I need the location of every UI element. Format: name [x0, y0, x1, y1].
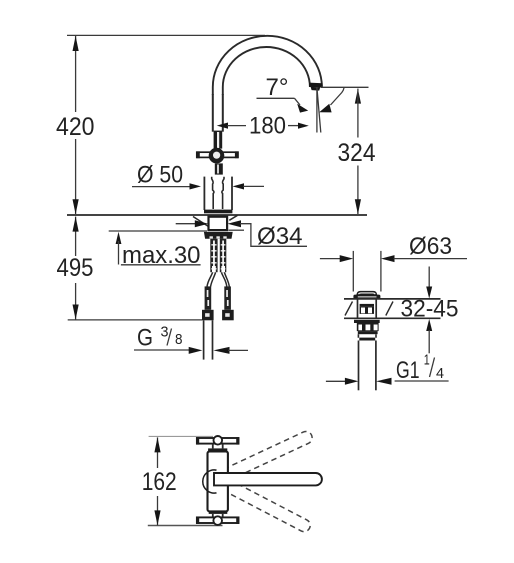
top view handle top stem — [208, 444, 227, 452]
dimension 495 bottom extension line — [68, 319, 203, 321]
hose fitting left — [202, 286, 214, 320]
drain deck band — [344, 299, 441, 318]
drain lock nut — [354, 320, 380, 334]
hose right — [221, 272, 229, 286]
stud open bottom left — [212, 266, 216, 272]
svg-text:3: 3 — [161, 325, 169, 341]
body base band — [204, 210, 232, 214]
svg-text:32-45: 32-45 — [401, 296, 459, 323]
spout inner curve — [223, 47, 310, 95]
7-degree arrowheads — [297, 104, 331, 113]
svg-text:1: 1 — [424, 353, 430, 369]
mounting nut — [204, 232, 233, 239]
svg-text:495: 495 — [57, 254, 94, 282]
diameter 34 arrows — [176, 220, 307, 246]
deck hatch left — [193, 217, 209, 227]
spout pipe — [213, 94, 223, 132]
svg-text:G1: G1 — [396, 357, 420, 384]
diameter 63 dimension line — [320, 255, 467, 262]
G1 1/4 label — [396, 353, 444, 385]
handle upper arm — [214, 131, 223, 149]
diameter 50 underline and arrows — [132, 183, 264, 189]
outlet extension line — [321, 86, 369, 88]
dimension 162 line — [154, 437, 160, 525]
G1 1/4 underline and arrows — [326, 378, 449, 385]
body outline — [204, 177, 232, 210]
drain extension lines — [353, 251, 381, 292]
deck bottom line (right of shank) — [229, 229, 245, 231]
svg-text:7°: 7° — [266, 74, 289, 101]
top view handle bottom bar — [196, 516, 239, 525]
top view spout tube — [214, 473, 322, 485]
body inner lines — [212, 177, 224, 209]
hose fitting right — [222, 286, 234, 320]
top view dashed spout positions — [223, 429, 314, 533]
svg-text:8: 8 — [175, 332, 183, 348]
G 3/8 label — [137, 325, 183, 352]
svg-text:180: 180 — [249, 113, 286, 140]
spout outer curve — [213, 36, 322, 95]
drain flange — [353, 295, 380, 299]
dimension 495 line — [73, 217, 79, 320]
svg-text:162: 162 — [142, 468, 177, 496]
deck bottom line (left) — [109, 230, 207, 232]
hose tail pipes — [204, 320, 213, 359]
handle bar — [196, 151, 238, 158]
svg-text:G: G — [137, 325, 153, 352]
dimension 420 line — [73, 36, 79, 214]
top view body bottom band — [209, 511, 228, 517]
svg-text:Ø34: Ø34 — [257, 223, 303, 250]
dimension 324 line — [355, 89, 361, 215]
svg-text:4: 4 — [436, 366, 444, 382]
deck top line — [67, 214, 367, 216]
top view handle top bar — [196, 436, 239, 445]
dimension 420 extension line (top) — [67, 34, 265, 36]
top view: 162 extension lines — [148, 436, 223, 525]
svg-text:324: 324 — [338, 139, 376, 167]
handle lower arm — [215, 163, 223, 174]
drain coupling — [358, 334, 376, 340]
deck hatch right — [229, 215, 237, 220]
supply stud right — [220, 239, 227, 273]
drain body in deck — [358, 299, 377, 318]
svg-text:Ø 50: Ø 50 — [137, 161, 183, 188]
7-degree wedge lines — [317, 87, 321, 133]
spout outlet face — [309, 83, 323, 88]
stud open bottom right — [221, 266, 225, 272]
hose left — [207, 272, 216, 286]
svg-text:Ø63: Ø63 — [409, 233, 452, 260]
svg-text:max.30: max.30 — [122, 242, 201, 269]
drain tail pipe — [359, 341, 376, 391]
drain plug dome — [356, 291, 377, 295]
mounting shank — [209, 217, 228, 230]
G 3/8 underline and arrows — [134, 347, 248, 354]
top view pivot circle — [203, 470, 217, 493]
7-degree underline and leaders — [257, 88, 345, 105]
max.30 annotation — [116, 232, 201, 265]
top view body — [208, 451, 228, 511]
spout aerator tip — [311, 87, 321, 91]
dimension 32-45 line — [426, 267, 432, 354]
svg-text:420: 420 — [56, 113, 95, 141]
handle knob — [209, 148, 225, 164]
dimension 180 line — [217, 123, 309, 129]
supply stud left — [210, 239, 217, 273]
